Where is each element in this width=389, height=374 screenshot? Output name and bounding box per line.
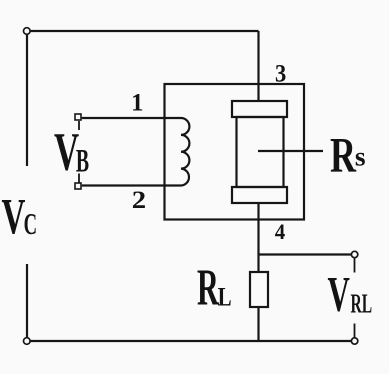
- svg-text:4: 4: [275, 220, 286, 245]
- wire bottom horizontal: [30, 340, 351, 342]
- Rs pointer line to label: [258, 150, 323, 152]
- wire left upper (Vc): [26, 34, 28, 166]
- svg-text:s: s: [355, 140, 366, 171]
- wire left lower (Vc): [26, 264, 28, 338]
- wire below RL: [257, 307, 259, 340]
- wire top horizontal (Vc node to pin3 drop): [30, 30, 258, 32]
- terminal VB pin1 stub: [78, 121, 80, 130]
- svg-text:B: B: [76, 142, 89, 178]
- node top-left junction: [24, 28, 31, 35]
- terminal VB pin2 stub: [78, 174, 80, 184]
- svg-text:L: L: [218, 283, 232, 312]
- svg-text:3: 3: [275, 60, 286, 87]
- svg-text:V: V: [328, 266, 350, 321]
- terminal VRL top stub: [354, 258, 356, 272]
- wire pin3 vertical drop: [257, 31, 259, 101]
- wire pin2: [82, 184, 181, 186]
- svg-text:V: V: [2, 190, 26, 246]
- reed switch Rs body: [237, 117, 284, 187]
- relay box outline: [165, 84, 305, 220]
- wire branch to VRL top terminal: [259, 253, 352, 255]
- terminal VB pin2 square: [75, 183, 81, 189]
- wire pin1: [82, 117, 181, 119]
- wire pin4 vertical: [257, 203, 259, 272]
- inductor coil L1 (4 arcs): [181, 118, 189, 186]
- reed switch Rs bottom cap: [232, 187, 287, 203]
- terminal VRL bottom stub: [354, 324, 356, 338]
- resistor RL body: [250, 272, 268, 307]
- svg-text:2: 2: [132, 186, 146, 214]
- reed switch Rs top cap: [232, 101, 287, 117]
- svg-text:R: R: [197, 259, 220, 316]
- svg-text:1: 1: [131, 90, 144, 117]
- svg-text:C: C: [24, 206, 37, 241]
- svg-text:R: R: [330, 128, 356, 183]
- terminal VRL top circle: [351, 251, 357, 257]
- terminal VRL bottom circle: [351, 338, 357, 344]
- node bottom-left junction: [24, 338, 31, 345]
- svg-text:RL: RL: [351, 288, 373, 319]
- terminal VB pin1 square: [75, 114, 81, 120]
